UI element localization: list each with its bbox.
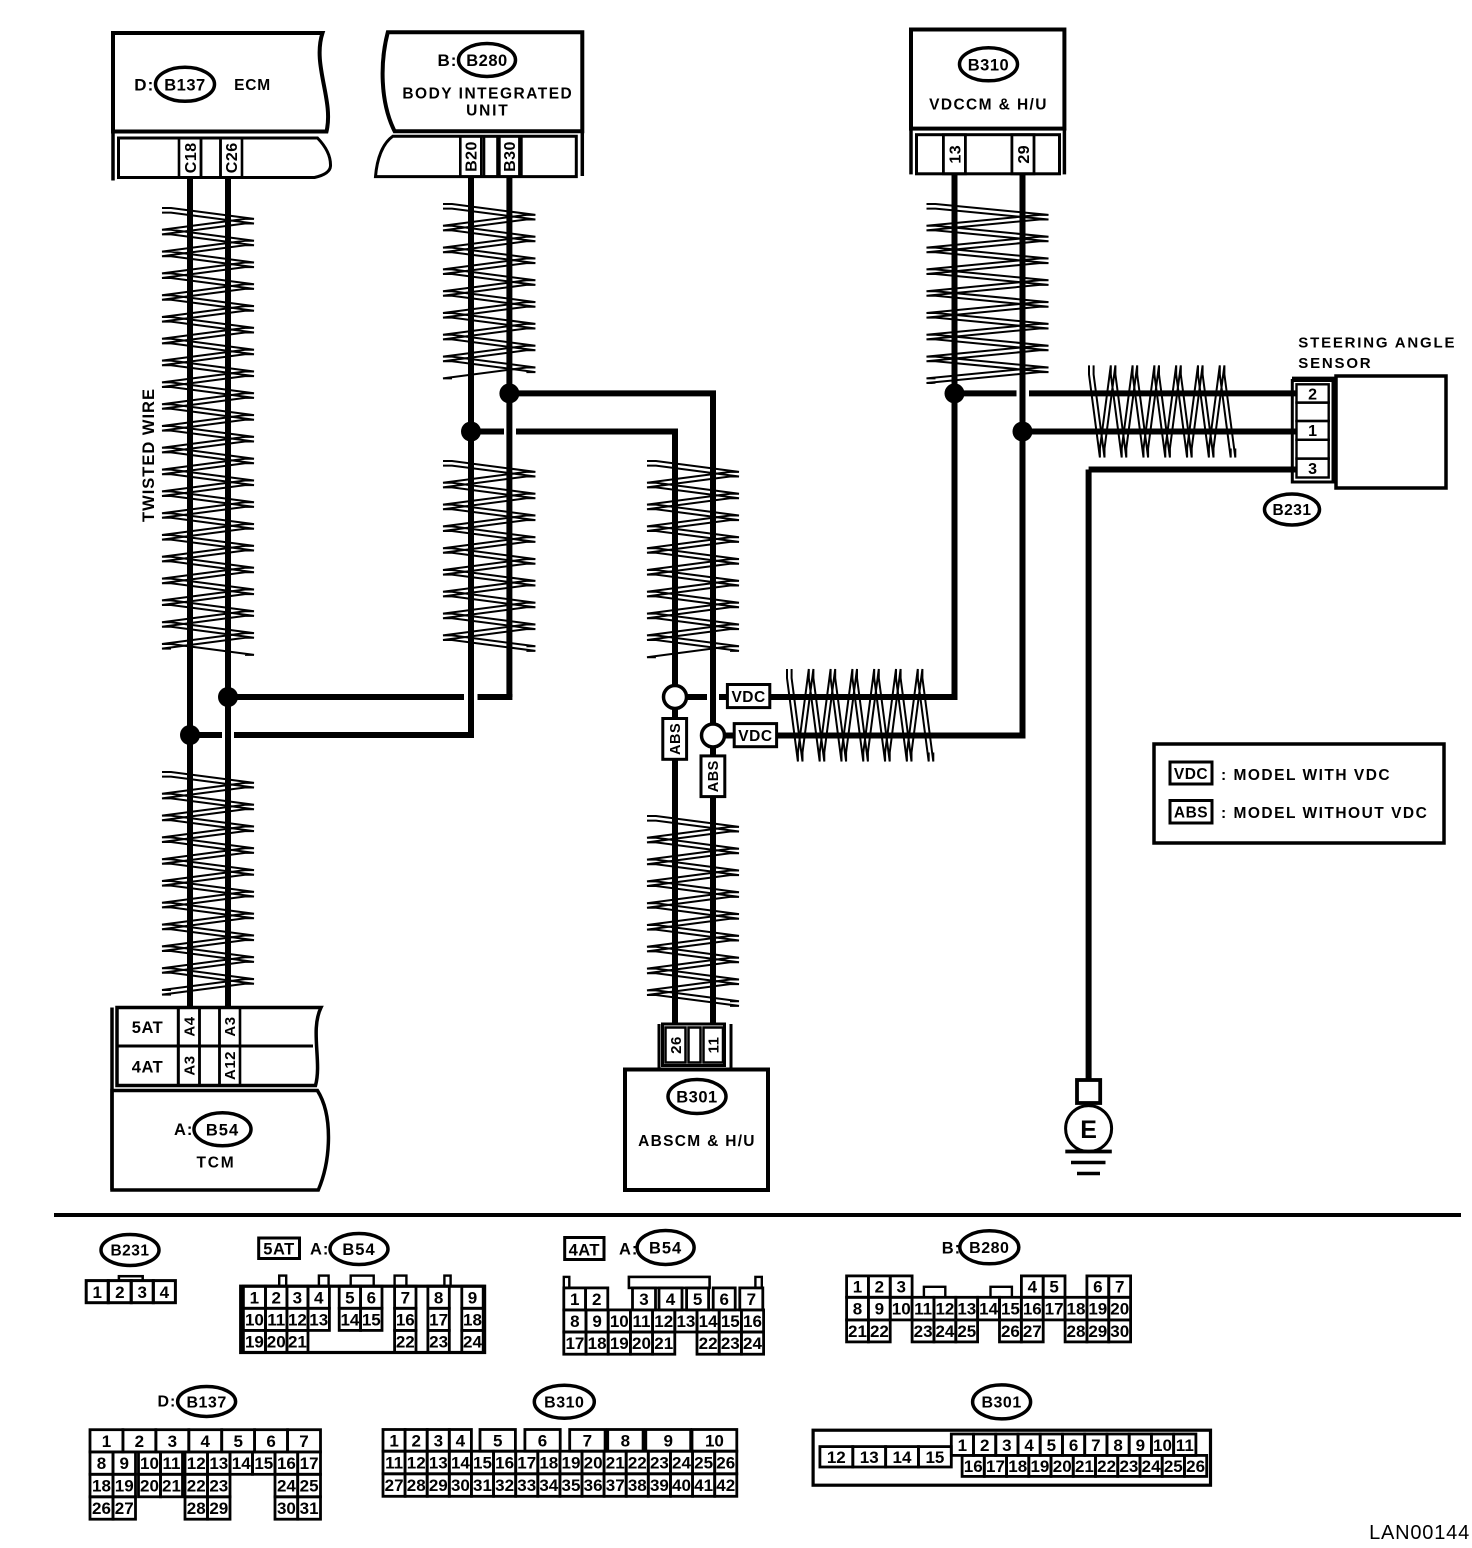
svg-text:1: 1 xyxy=(92,1283,101,1302)
svg-text:4: 4 xyxy=(1024,1436,1034,1455)
svg-text:C26: C26 xyxy=(224,142,241,173)
svg-text:11: 11 xyxy=(633,1312,651,1331)
svg-text:4: 4 xyxy=(456,1432,466,1451)
svg-text:15: 15 xyxy=(721,1312,740,1331)
svg-text:21: 21 xyxy=(162,1477,181,1496)
svg-text:19: 19 xyxy=(610,1334,629,1353)
svg-text:22: 22 xyxy=(396,1333,415,1352)
svg-text:A:: A: xyxy=(174,1121,193,1139)
svg-text:19: 19 xyxy=(115,1477,134,1496)
svg-text:7: 7 xyxy=(583,1432,592,1451)
svg-text:7: 7 xyxy=(747,1290,756,1309)
svg-text:B137: B137 xyxy=(186,1394,226,1411)
svg-text:5: 5 xyxy=(233,1432,242,1451)
svg-text:3: 3 xyxy=(434,1432,443,1451)
svg-text:A12: A12 xyxy=(222,1051,239,1080)
svg-text:18: 18 xyxy=(1008,1457,1027,1476)
svg-text:26: 26 xyxy=(1186,1457,1205,1476)
svg-text:1: 1 xyxy=(1308,423,1317,440)
svg-text:21: 21 xyxy=(848,1322,867,1341)
svg-text:B310: B310 xyxy=(544,1395,584,1412)
svg-text:21: 21 xyxy=(288,1333,307,1352)
svg-text:15: 15 xyxy=(254,1454,273,1473)
svg-text:4: 4 xyxy=(666,1290,676,1309)
svg-text:17: 17 xyxy=(429,1311,448,1330)
svg-text:2: 2 xyxy=(115,1283,124,1302)
svg-text:3: 3 xyxy=(896,1278,905,1297)
svg-text:B310: B310 xyxy=(968,56,1009,74)
svg-text:11: 11 xyxy=(706,1037,723,1054)
svg-text:23: 23 xyxy=(429,1333,448,1352)
svg-text:17: 17 xyxy=(986,1457,1005,1476)
svg-text:: MODEL WITH VDC: : MODEL WITH VDC xyxy=(1221,767,1391,784)
svg-text:B54: B54 xyxy=(206,1121,239,1139)
svg-text:20: 20 xyxy=(1110,1300,1129,1319)
svg-text:B20: B20 xyxy=(464,141,481,172)
svg-text:25: 25 xyxy=(1164,1457,1183,1476)
svg-text:20: 20 xyxy=(632,1334,651,1353)
svg-text:1: 1 xyxy=(958,1436,967,1455)
svg-text:23: 23 xyxy=(209,1477,228,1496)
svg-text:VDC: VDC xyxy=(731,689,765,706)
svg-text:ABS: ABS xyxy=(668,723,684,755)
svg-text:VDC: VDC xyxy=(738,728,772,745)
svg-text:BODY INTEGRATED: BODY INTEGRATED xyxy=(402,85,573,102)
svg-text:13: 13 xyxy=(429,1454,448,1473)
svg-text:12: 12 xyxy=(407,1454,426,1473)
svg-text:30: 30 xyxy=(277,1499,296,1518)
svg-text:21: 21 xyxy=(1075,1457,1094,1476)
svg-text:5: 5 xyxy=(345,1288,354,1307)
svg-text:9: 9 xyxy=(468,1288,477,1307)
svg-text:6: 6 xyxy=(367,1288,376,1307)
svg-text:13: 13 xyxy=(957,1300,976,1319)
svg-text:14: 14 xyxy=(699,1312,718,1331)
svg-text:UNIT: UNIT xyxy=(466,102,509,119)
svg-text:9: 9 xyxy=(592,1312,601,1331)
svg-text:VDCCM & H/U: VDCCM & H/U xyxy=(929,96,1048,113)
svg-text:B231: B231 xyxy=(1272,502,1311,519)
svg-text:42: 42 xyxy=(716,1476,735,1495)
svg-text:ABSCM & H/U: ABSCM & H/U xyxy=(638,1133,756,1150)
svg-text:4AT: 4AT xyxy=(569,1241,600,1259)
svg-text:ECM: ECM xyxy=(234,77,271,94)
svg-text:3: 3 xyxy=(137,1283,146,1302)
svg-text:22: 22 xyxy=(870,1322,889,1341)
svg-text:1: 1 xyxy=(102,1432,111,1451)
svg-text:24: 24 xyxy=(277,1477,296,1496)
svg-text:23: 23 xyxy=(1119,1457,1138,1476)
svg-text:19: 19 xyxy=(1030,1457,1049,1476)
svg-text:3: 3 xyxy=(1002,1436,1011,1455)
svg-text:9: 9 xyxy=(663,1432,672,1451)
svg-text:21: 21 xyxy=(606,1454,625,1473)
svg-text:: MODEL WITHOUT VDC: : MODEL WITHOUT VDC xyxy=(1221,805,1428,822)
svg-text:29: 29 xyxy=(1088,1322,1107,1341)
svg-text:24: 24 xyxy=(935,1322,954,1341)
svg-text:13: 13 xyxy=(860,1448,879,1467)
svg-text:38: 38 xyxy=(628,1476,647,1495)
svg-text:14: 14 xyxy=(340,1311,359,1330)
svg-text:4AT: 4AT xyxy=(132,1058,163,1076)
svg-text:5AT: 5AT xyxy=(132,1019,163,1037)
svg-text:18: 18 xyxy=(92,1477,111,1496)
svg-text:3: 3 xyxy=(168,1432,177,1451)
svg-text:11: 11 xyxy=(163,1454,181,1473)
svg-text:C18: C18 xyxy=(183,142,200,173)
svg-text:23: 23 xyxy=(914,1322,933,1341)
svg-text:37: 37 xyxy=(606,1476,625,1495)
svg-text:5AT: 5AT xyxy=(263,1240,294,1258)
svg-text:1: 1 xyxy=(389,1432,398,1451)
svg-text:10: 10 xyxy=(1153,1436,1172,1455)
svg-text:15: 15 xyxy=(925,1448,944,1467)
svg-text:2: 2 xyxy=(1308,386,1317,403)
svg-text:2: 2 xyxy=(411,1432,420,1451)
svg-text:9: 9 xyxy=(1136,1436,1145,1455)
svg-text:9: 9 xyxy=(875,1300,884,1319)
svg-text:17: 17 xyxy=(300,1454,319,1473)
svg-text:12: 12 xyxy=(654,1312,673,1331)
svg-text:33: 33 xyxy=(517,1476,536,1495)
svg-text:16: 16 xyxy=(495,1454,514,1473)
svg-text:17: 17 xyxy=(517,1454,536,1473)
svg-text:18: 18 xyxy=(463,1311,482,1330)
svg-text:B:: B: xyxy=(438,51,458,70)
svg-text:16: 16 xyxy=(964,1457,983,1476)
svg-text:36: 36 xyxy=(584,1476,603,1495)
svg-text:2: 2 xyxy=(135,1432,144,1451)
svg-text:26: 26 xyxy=(1001,1322,1020,1341)
svg-text:11: 11 xyxy=(267,1311,285,1330)
svg-text:25: 25 xyxy=(957,1322,976,1341)
svg-text:12: 12 xyxy=(187,1454,206,1473)
svg-text:E: E xyxy=(1080,1116,1097,1144)
svg-text:20: 20 xyxy=(140,1477,159,1496)
svg-text:4: 4 xyxy=(314,1288,324,1307)
svg-text:14: 14 xyxy=(893,1448,912,1467)
svg-text:18: 18 xyxy=(588,1334,607,1353)
svg-text:6: 6 xyxy=(266,1432,275,1451)
svg-text:29: 29 xyxy=(429,1476,448,1495)
svg-text:27: 27 xyxy=(385,1476,404,1495)
svg-text:10: 10 xyxy=(610,1312,629,1331)
svg-text:STEERING ANGLE: STEERING ANGLE xyxy=(1298,335,1456,352)
svg-text:22: 22 xyxy=(187,1477,206,1496)
svg-text:10: 10 xyxy=(140,1454,159,1473)
svg-text:VDC: VDC xyxy=(1174,766,1208,783)
svg-text:14: 14 xyxy=(451,1454,470,1473)
svg-text:3: 3 xyxy=(1308,461,1317,478)
svg-text:15: 15 xyxy=(1001,1300,1020,1319)
svg-text:B54: B54 xyxy=(649,1239,682,1257)
svg-text:3: 3 xyxy=(639,1290,648,1309)
svg-text:TWISTED WIRE: TWISTED WIRE xyxy=(140,388,158,522)
svg-text:2: 2 xyxy=(875,1278,884,1297)
svg-text:15: 15 xyxy=(362,1311,381,1330)
svg-text:16: 16 xyxy=(743,1312,762,1331)
svg-text:SENSOR: SENSOR xyxy=(1298,355,1372,372)
svg-text:13: 13 xyxy=(209,1454,228,1473)
svg-text:2: 2 xyxy=(271,1288,280,1307)
svg-text:10: 10 xyxy=(705,1432,724,1451)
svg-text:TCM: TCM xyxy=(197,1155,236,1172)
svg-text:18: 18 xyxy=(539,1454,558,1473)
svg-text:A:: A: xyxy=(310,1241,329,1259)
svg-text:26: 26 xyxy=(668,1036,685,1054)
svg-text:30: 30 xyxy=(1110,1322,1129,1341)
svg-text:ABS: ABS xyxy=(1174,804,1208,821)
svg-text:20: 20 xyxy=(1053,1457,1072,1476)
svg-text:7: 7 xyxy=(401,1288,410,1307)
svg-text:B54: B54 xyxy=(342,1241,375,1259)
svg-text:13: 13 xyxy=(947,145,964,164)
svg-text:26: 26 xyxy=(716,1454,735,1473)
svg-text:22: 22 xyxy=(1097,1457,1116,1476)
svg-text:1: 1 xyxy=(853,1278,862,1297)
svg-text:4: 4 xyxy=(1028,1278,1038,1297)
svg-text:11: 11 xyxy=(385,1454,403,1473)
svg-text:28: 28 xyxy=(1067,1322,1086,1341)
svg-text:B280: B280 xyxy=(466,52,507,70)
svg-text:26: 26 xyxy=(92,1499,111,1518)
svg-text:2: 2 xyxy=(592,1290,601,1309)
svg-text:11: 11 xyxy=(914,1300,932,1319)
svg-text:16: 16 xyxy=(396,1311,415,1330)
svg-text:17: 17 xyxy=(565,1334,584,1353)
svg-text:28: 28 xyxy=(187,1499,206,1518)
svg-text:8: 8 xyxy=(1113,1436,1122,1455)
svg-text:10: 10 xyxy=(245,1311,264,1330)
svg-text:B231: B231 xyxy=(110,1243,149,1260)
svg-text:D:: D: xyxy=(134,75,154,94)
svg-text:6: 6 xyxy=(719,1290,728,1309)
svg-text:24: 24 xyxy=(672,1454,691,1473)
svg-text:23: 23 xyxy=(721,1334,740,1353)
svg-text:ABS: ABS xyxy=(706,760,722,792)
svg-text:14: 14 xyxy=(232,1454,251,1473)
svg-text:25: 25 xyxy=(300,1477,319,1496)
svg-text:15: 15 xyxy=(473,1454,492,1473)
svg-text:8: 8 xyxy=(97,1454,106,1473)
svg-text:30: 30 xyxy=(451,1476,470,1495)
svg-text:B30: B30 xyxy=(502,141,519,172)
svg-text:11: 11 xyxy=(1176,1436,1194,1455)
svg-text:17: 17 xyxy=(1045,1300,1064,1319)
svg-text:8: 8 xyxy=(570,1312,579,1331)
svg-text:13: 13 xyxy=(309,1311,328,1330)
svg-text:10: 10 xyxy=(892,1300,911,1319)
svg-text:5: 5 xyxy=(1049,1278,1058,1297)
svg-text:6: 6 xyxy=(538,1432,547,1451)
svg-text:27: 27 xyxy=(115,1499,134,1518)
svg-text:16: 16 xyxy=(277,1454,296,1473)
svg-text:34: 34 xyxy=(539,1476,558,1495)
svg-text:23: 23 xyxy=(650,1454,669,1473)
svg-text:A3: A3 xyxy=(222,1016,239,1036)
svg-text:27: 27 xyxy=(1023,1322,1042,1341)
svg-text:8: 8 xyxy=(853,1300,862,1319)
svg-text:6: 6 xyxy=(1093,1278,1102,1297)
svg-text:B137: B137 xyxy=(164,76,205,94)
svg-text:31: 31 xyxy=(300,1499,319,1518)
svg-text:40: 40 xyxy=(672,1476,691,1495)
svg-text:A4: A4 xyxy=(181,1016,198,1036)
svg-text:14: 14 xyxy=(979,1300,998,1319)
svg-text:4: 4 xyxy=(200,1432,210,1451)
svg-text:5: 5 xyxy=(493,1432,502,1451)
svg-text:16: 16 xyxy=(1023,1300,1042,1319)
svg-text:A3: A3 xyxy=(181,1055,198,1075)
svg-text:29: 29 xyxy=(209,1499,228,1518)
svg-text:B301: B301 xyxy=(676,1089,717,1107)
svg-text:12: 12 xyxy=(935,1300,954,1319)
svg-text:4: 4 xyxy=(160,1283,170,1302)
svg-text:12: 12 xyxy=(827,1448,846,1467)
svg-text:7: 7 xyxy=(299,1432,308,1451)
svg-text:39: 39 xyxy=(650,1476,669,1495)
svg-text:29: 29 xyxy=(1016,145,1033,164)
svg-text:21: 21 xyxy=(654,1334,673,1353)
svg-text:22: 22 xyxy=(628,1454,647,1473)
svg-text:8: 8 xyxy=(621,1432,630,1451)
svg-text:22: 22 xyxy=(699,1334,718,1353)
svg-text:12: 12 xyxy=(288,1311,307,1330)
svg-text:7: 7 xyxy=(1115,1278,1124,1297)
svg-text:24: 24 xyxy=(463,1333,482,1352)
svg-text:19: 19 xyxy=(1088,1300,1107,1319)
svg-text:1: 1 xyxy=(570,1290,579,1309)
svg-text:24: 24 xyxy=(1142,1457,1161,1476)
svg-text:32: 32 xyxy=(495,1476,514,1495)
svg-text:13: 13 xyxy=(676,1312,695,1331)
svg-text:B301: B301 xyxy=(981,1395,1021,1412)
svg-text:24: 24 xyxy=(743,1334,762,1353)
svg-text:28: 28 xyxy=(407,1476,426,1495)
svg-text:2: 2 xyxy=(980,1436,989,1455)
svg-text:19: 19 xyxy=(245,1333,264,1352)
svg-text:3: 3 xyxy=(293,1288,302,1307)
svg-text:19: 19 xyxy=(562,1454,581,1473)
svg-text:9: 9 xyxy=(119,1454,128,1473)
svg-text:8: 8 xyxy=(434,1288,443,1307)
svg-text:18: 18 xyxy=(1067,1300,1086,1319)
svg-text:31: 31 xyxy=(473,1476,492,1495)
svg-text:41: 41 xyxy=(694,1476,713,1495)
svg-text:D:: D: xyxy=(158,1394,177,1411)
svg-text:20: 20 xyxy=(584,1454,603,1473)
svg-text:5: 5 xyxy=(693,1290,702,1309)
svg-text:25: 25 xyxy=(694,1454,713,1473)
svg-text:6: 6 xyxy=(1069,1436,1078,1455)
svg-text:LAN00144: LAN00144 xyxy=(1369,1522,1470,1544)
svg-text:35: 35 xyxy=(562,1476,581,1495)
svg-text:5: 5 xyxy=(1047,1436,1056,1455)
svg-text:1: 1 xyxy=(250,1288,259,1307)
svg-text:B280: B280 xyxy=(969,1240,1009,1257)
svg-text:20: 20 xyxy=(267,1333,286,1352)
svg-text:7: 7 xyxy=(1091,1436,1100,1455)
